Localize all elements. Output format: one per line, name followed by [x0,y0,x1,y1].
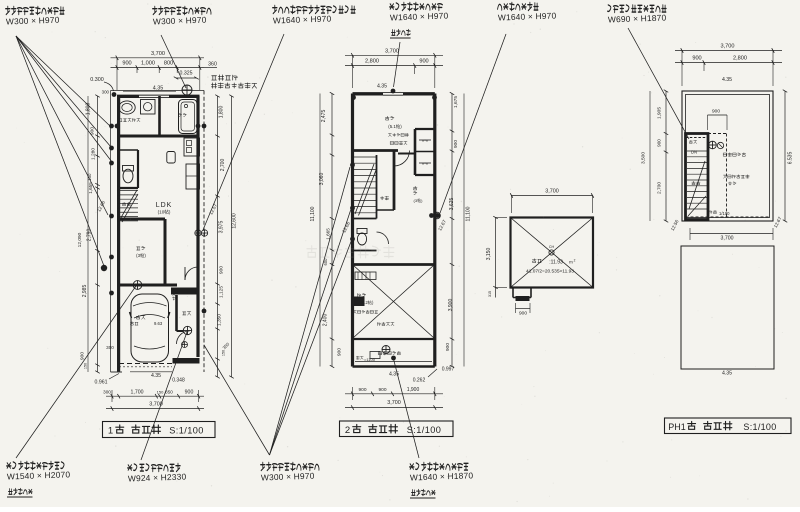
svg-text:900: 900 [445,343,451,351]
annotation A5 tantai amado [498,2,557,22]
svg-text:900: 900 [519,311,527,317]
roof area text [526,259,576,275]
svg-text:150: 150 [157,389,164,394]
svg-text:3,700: 3,700 [387,400,401,406]
svg-text:900: 900 [337,348,343,356]
2F room label 納戸(5.1帖) [385,116,402,130]
svg-text:1,125: 1,125 [219,286,225,298]
svg-text:150: 150 [84,363,88,369]
2F label 室外パンコン [353,310,377,313]
1F plan property/boundary lines [111,91,205,373]
room label 車庫 面積 [136,315,145,319]
svg-text:300: 300 [102,90,110,95]
2F right dimension chain [437,92,471,368]
roof plan outline [511,218,594,288]
PH top dims 3,700 / 900 2,800 / 4.35 [675,44,782,87]
room label 階段 [122,202,130,206]
svg-text:150: 150 [222,350,226,356]
svg-text:3,500: 3,500 [641,152,647,164]
PH left dimension chain [641,90,669,223]
svg-text:900: 900 [712,109,720,115]
svg-text:PH1: PH1 [668,422,686,432]
svg-text:4.35: 4.35 [722,77,732,83]
2F label 手摺=1100 [356,356,375,362]
2F balcony hatch [355,352,432,362]
annotation B1 shutter garage [7,461,71,497]
svg-text:2: 2 [574,259,576,263]
PH label 防水セメント 水勾 [723,175,749,185]
toilet [123,166,134,183]
svg-text:3,900: 3,900 [448,299,454,312]
svg-text:12,600: 12,600 [232,213,238,229]
svg-text:1,800: 1,800 [86,103,92,116]
annotation B2 entrance door [128,463,187,483]
2F AC outdoor unit black [354,297,365,307]
2F left dimension chain [310,92,351,368]
2F louver marks [355,272,376,280]
svg-text::11.93: :11.93 [549,260,563,266]
right wall window pair [195,230,201,236]
svg-text:(10帖): (10帖) [158,209,171,216]
leader fan from annotation A1 [16,36,112,266]
window vent symbol top [182,85,192,95]
svg-text:1/100: 1/100 [719,211,730,216]
boundary note 隣地境界(反屋傾斜し) [211,75,256,88]
svg-text:0.348: 0.348 [172,378,185,384]
2F title box 2階 平面図 S:1/100 [340,421,454,437]
2F interior walls [353,129,435,339]
svg-text:3,700: 3,700 [721,236,734,242]
svg-text:4.35: 4.35 [722,371,732,377]
svg-text:900: 900 [378,387,386,393]
2F label 廊下 [381,196,389,200]
2F toilet [357,229,367,246]
svg-text:W1640 × H970: W1640 × H970 [498,10,557,22]
roof diagonals [511,218,593,287]
svg-text:3,700: 3,700 [721,44,735,50]
svg-text:1,800: 1,800 [219,106,225,119]
2F bottom dims 0.997 4.35 0.262 [389,367,455,384]
svg-text:=°=: =°= [422,162,429,167]
2F staircase [353,157,377,216]
svg-text:4.35: 4.35 [151,373,161,379]
svg-text:(3帖): (3帖) [414,197,424,203]
svg-text:2,985: 2,985 [82,285,88,298]
svg-text:900: 900 [80,352,86,360]
svg-text:900: 900 [419,59,428,65]
2F label バルコニー [378,351,400,355]
1F top dimension 900 1,000 800 [111,61,205,74]
PH lower roof rectangle [681,246,774,369]
svg-text:11,100: 11,100 [466,206,472,221]
1F wall post dots [101,92,207,313]
svg-text:0.961: 0.961 [95,380,108,386]
svg-text:900: 900 [692,56,701,62]
annotation A6 folding ladder [608,5,667,25]
washbasin [119,101,135,114]
leader fan B3 [204,167,352,455]
svg-text:3,150: 3,150 [486,248,492,261]
svg-text:2: 2 [345,425,350,436]
svg-text:3,975: 3,975 [219,221,225,234]
svg-text:12,090: 12,090 [77,232,83,247]
2F sloped-ceiling cross marks [353,265,434,338]
svg-text:800: 800 [164,61,173,67]
leader B4 [394,359,420,458]
entrance small vent [182,342,188,348]
roof notch dim 900 [516,303,531,317]
svg-text:LDK: LDK [156,202,173,209]
svg-text:W300 × H970: W300 × H970 [6,15,60,27]
PH label バルコニー [723,153,745,157]
svg-text:3,700: 3,700 [151,51,165,57]
PH stair block walls [686,134,709,220]
svg-text:3,700: 3,700 [545,189,559,195]
PH label 階段 [692,181,700,185]
2F room label 洋室(6.2帖) [358,293,374,306]
PH label 荷揚/DN [689,140,697,154]
svg-text:W690 × H1870: W690 × H1870 [608,12,667,24]
leader A3 [203,34,284,230]
1F outer walls [117,95,200,372]
roof center vent [549,250,554,255]
PH balcony dim 900 [708,109,728,131]
svg-text:1,675: 1,675 [453,96,459,108]
2F bottom dimension 900 900 1,900 [345,387,443,400]
svg-text:0.997: 0.997 [442,367,455,373]
svg-text:1,280: 1,280 [91,148,97,160]
2F label 物干金物 [390,141,407,145]
svg-text:6.535: 6.535 [788,152,794,165]
bathtub [179,100,198,134]
roof top dimension 3,700 [510,189,594,214]
svg-text:W300 × H970: W300 × H970 [153,15,207,27]
leader A5 [440,34,506,213]
svg-text:W1640 × H970: W1640 × H970 [273,13,332,25]
PH lower dim 3,700 [690,228,773,242]
annotation B3 tate-suberi window L2 [261,462,319,482]
2F top dimension 3,700 / 2,800 900 [345,49,443,90]
washing machine [141,100,156,115]
svg-text:0.300: 0.300 [90,77,104,83]
svg-text:4.35: 4.35 [377,84,387,90]
svg-text:900: 900 [122,61,131,67]
2F wall post dots [350,89,440,361]
svg-text:360: 360 [208,62,217,68]
svg-text:(3帖): (3帖) [136,252,146,259]
svg-text:(5.1帖): (5.1帖) [388,123,402,130]
2F window symbols [434,212,441,219]
annotation B4 shutter amado 2F [410,462,474,498]
1F title box 1階 平面図 S:1/100 [103,422,216,438]
1F entrance door arc [177,331,190,344]
annotation A4 shutter amado [390,2,449,38]
svg-text:0.262: 0.262 [413,378,426,384]
garage opening dashed line [119,363,172,365]
svg-text:(6.2帖): (6.2帖) [361,299,374,306]
svg-text:3,625: 3,625 [449,198,455,211]
1F top dimension 3,700 [111,51,205,90]
PH balcony dashed boundary [686,134,771,218]
PH right dimension 6.535 [783,90,794,223]
2F closet shelf marks [419,139,431,167]
svg-text:W300 × H970: W300 × H970 [261,471,315,483]
1F left dimension chain [77,95,106,374]
svg-text:2,700: 2,700 [220,159,226,172]
leader A4 [394,42,401,87]
svg-text:1,350: 1,350 [217,314,223,326]
svg-text:DN: DN [691,150,697,155]
svg-text:2,400: 2,400 [323,314,329,327]
svg-text:900: 900 [185,389,194,395]
svg-text:2,700: 2,700 [657,182,663,194]
svg-text:900: 900 [358,387,366,393]
svg-text:CH: CH [549,245,555,249]
svg-text:W924 × H2330: W924 × H2330 [128,471,187,483]
PH hatch symbols [709,141,717,149]
svg-text:=°=: =°= [422,139,429,144]
svg-text:9.63: 9.63 [154,321,163,326]
svg-text:2,800: 2,800 [365,59,379,65]
svg-text:1,900: 1,900 [407,387,420,393]
roof left dimension 3,150 / 315 [486,216,507,297]
room label ホール [172,289,175,300]
svg-text:300: 300 [106,345,114,350]
annotation A3 menkoshi window [273,5,356,25]
svg-text:1,700: 1,700 [131,389,144,395]
svg-text:1,665: 1,665 [326,228,331,240]
svg-text:4.35: 4.35 [153,86,164,92]
1F right dimension chain [208,95,237,379]
kitchen counter with stove [184,138,200,156]
2F label 上部ロフト [388,133,408,136]
PH stair treads [687,151,707,216]
entrance door symbol [183,326,191,334]
room label 浴室 [179,113,187,116]
svg-text:W1640 × H970: W1640 × H970 [390,10,449,22]
1F hall door arc [185,267,198,280]
2F label 勾配天井 [378,322,394,326]
kitchen counter lower [186,164,200,189]
svg-text:11,100: 11,100 [310,206,316,221]
kitchen sink unit [167,152,175,164]
svg-text:S:1/100: S:1/100 [169,426,203,436]
svg-text:41.07/2=20.535>11.93: 41.07/2=20.535>11.93 [526,269,574,275]
svg-text:S:1/100: S:1/100 [743,422,776,432]
leader A2 [161,35,186,88]
svg-text:900: 900 [657,139,662,147]
1F staircase [117,190,138,222]
svg-text:0.325: 0.325 [180,71,193,77]
PH outer double rectangle [682,91,773,221]
2F bottom total 3,700 [345,400,443,410]
svg-text:2,800: 2,800 [733,56,747,62]
1F bottom total 3,700 [106,402,204,411]
1F bottom dimension 300 1,700 150 850 900 [103,389,204,402]
car in garage [130,294,170,362]
leader B2 [141,332,187,460]
PH title box PH1階 平面図 S:1/100 [665,418,792,434]
faint watermark smudge [307,246,394,258]
annotation A1 tate-suberi window R [6,6,65,26]
leader B1 [16,286,136,458]
2F room label 納戸(3帖) [413,186,423,203]
svg-text:2,790: 2,790 [87,229,93,242]
door symbol kitchen side [133,281,142,290]
leader A6 [628,28,689,139]
PH label 勾配1/100 [709,210,730,216]
svg-text:3,700: 3,700 [385,49,399,55]
room label 和室(3帖) [137,246,145,250]
svg-text:315: 315 [488,291,492,297]
svg-text:m: m [569,260,573,265]
svg-text:=1100: =1100 [364,357,376,362]
svg-text:900: 900 [453,140,459,148]
svg-text:1,000: 1,000 [141,61,155,67]
room label 玄関 [183,312,191,316]
dim 0.325 [174,71,199,80]
svg-text:2,475: 2,475 [321,110,327,123]
room label 洗面脱衣室 [119,118,140,121]
1F interior walls [117,96,200,331]
svg-text:300: 300 [103,389,111,394]
roof notch [513,288,531,302]
svg-text:1: 1 [108,426,113,437]
annotation A2 tate-suberi window L [153,6,211,26]
2F outer walls [353,92,435,366]
2F door arcs [394,151,410,167]
svg-text:900: 900 [219,266,225,274]
1F bottom dims 4.35 / 0.348 / 0.961 [95,345,185,386]
